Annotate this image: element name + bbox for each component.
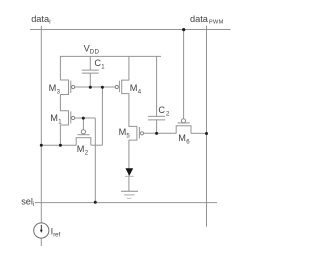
- svg-text:i: i: [49, 20, 50, 26]
- svg-text:C: C: [158, 105, 165, 115]
- svg-text:M: M: [130, 83, 138, 93]
- svg-text:ref: ref: [53, 232, 60, 238]
- svg-text:data: data: [190, 14, 209, 24]
- svg-text:sel: sel: [21, 196, 33, 206]
- svg-text:M: M: [119, 127, 127, 137]
- svg-text:DD: DD: [90, 49, 100, 56]
- svg-text:i: i: [33, 202, 34, 208]
- svg-text:data: data: [31, 14, 50, 24]
- svg-text:M: M: [49, 83, 57, 93]
- svg-text:M: M: [178, 133, 186, 143]
- svg-text:PWM: PWM: [209, 19, 224, 25]
- svg-text:M: M: [77, 144, 85, 154]
- svg-text:M: M: [50, 113, 58, 123]
